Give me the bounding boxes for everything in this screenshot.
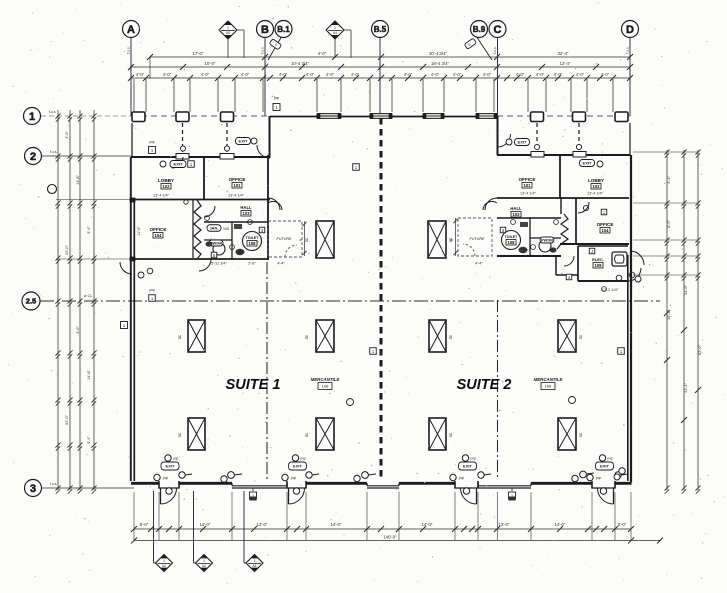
B.1 flag leader — [268, 38, 281, 61]
svg-text:ELEC.: ELEC. — [592, 257, 604, 262]
powder circle — [213, 243, 225, 255]
left block extra marks — [205, 216, 210, 221]
top dimension line 1 — [150, 56, 630, 58]
svg-text:18′-4 3/4″: 18′-4 3/4″ — [431, 61, 450, 66]
storefront door alcove — [158, 481, 160, 489]
canopy columns left — [132, 112, 145, 122]
svg-text:B: B — [261, 24, 269, 36]
future room dim edge right — [455, 218, 457, 256]
svg-text:4′-0″: 4′-0″ — [279, 72, 288, 77]
svg-text:4′-4″: 4′-4″ — [666, 176, 671, 184]
north wall jog at B — [269, 116, 271, 158]
demising wall B.5 dashed — [380, 118, 383, 480]
right block toilet partition — [529, 218, 531, 256]
svg-text:PWDR: PWDR — [541, 238, 553, 243]
svg-text:HALL: HALL — [510, 206, 522, 211]
bottom dimension line 2 — [134, 540, 660, 542]
door leaf and swing — [160, 488, 162, 504]
window tag diamond 1 — [156, 555, 173, 572]
svg-text:9′-4″: 9′-4″ — [87, 226, 91, 234]
svg-text:D: D — [626, 24, 634, 36]
svg-text:pop: pop — [608, 457, 614, 461]
right block office walls — [575, 198, 577, 244]
svg-text:sc: sc — [578, 335, 583, 339]
canopy east edge — [629, 123, 631, 155]
storefront recess labels right — [572, 475, 578, 481]
svg-text:1: 1 — [334, 26, 336, 30]
elec small box — [589, 248, 595, 254]
svg-text:14′-0″: 14′-0″ — [422, 522, 433, 527]
svg-text:14′-0″: 14′-0″ — [200, 522, 211, 527]
svg-text:4′-0″: 4′-0″ — [241, 72, 250, 77]
svg-text:62′-0″: 62′-0″ — [65, 415, 69, 425]
svg-text:A4: A4 — [226, 31, 230, 35]
column xbrace row2 d — [558, 418, 576, 450]
svg-text:EXIT: EXIT — [463, 464, 472, 469]
svg-text:14′-8″: 14′-8″ — [87, 370, 91, 380]
svg-text:2′-8″: 2′-8″ — [248, 262, 256, 266]
svg-text:12′-4″: 12′-4″ — [560, 61, 571, 66]
svg-text:30′-4 3/4″: 30′-4 3/4″ — [429, 51, 448, 56]
svg-text:10′-4 3/4″: 10′-4 3/4″ — [291, 61, 310, 66]
svg-text:103: 103 — [513, 212, 521, 217]
window tag diamond 3 — [246, 555, 263, 572]
svg-text:f.o.s.: f.o.s. — [261, 46, 265, 53]
right block plumbing wall zigzag — [557, 214, 568, 249]
svg-text:14′-0″: 14′-0″ — [555, 522, 566, 527]
left block wall h y199 — [133, 199, 270, 201]
top dimension ticks — [128, 75, 134, 81]
svg-text:SUITE 1: SUITE 1 — [226, 377, 281, 393]
top extension lines — [133, 79, 135, 112]
future room dim edge — [304, 221, 306, 256]
canopy column drop lines right — [536, 123, 538, 151]
protrusion door arc — [564, 256, 574, 266]
grid bubble D — [622, 21, 639, 38]
door labels — [463, 488, 469, 494]
svg-text:104: 104 — [155, 233, 163, 238]
south wall high segments — [131, 482, 159, 485]
left exit door west wall — [120, 262, 132, 274]
svg-text:1: 1 — [203, 559, 205, 563]
svg-text:sc: sc — [304, 335, 309, 339]
left block wall v x268 — [267, 155, 269, 260]
elec fixture — [612, 252, 627, 266]
left block wall h y259 — [133, 258, 268, 260]
storefront recess labels left — [221, 476, 227, 482]
svg-text:4′-0″: 4′-0″ — [536, 72, 545, 77]
svg-text:8′-0″: 8′-0″ — [666, 220, 671, 228]
column xbrace upper-left future — [316, 221, 334, 258]
storefront recess labels center — [354, 475, 360, 481]
svg-text:EXIT: EXIT — [600, 464, 609, 469]
future room right dashed — [458, 218, 492, 256]
svg-text:1: 1 — [163, 559, 165, 563]
interior wall extension stubs to left margin — [56, 199, 131, 201]
storefront door alcove — [591, 481, 593, 489]
svg-text:101: 101 — [234, 183, 242, 188]
svg-text:LOBBY: LOBBY — [588, 178, 604, 183]
door leaf and swing — [476, 488, 478, 504]
keynote diamond top 2 — [326, 21, 344, 39]
svg-text:1: 1 — [29, 111, 35, 123]
svg-text:EXIT: EXIT — [239, 139, 248, 144]
svg-text:EXIT: EXIT — [583, 161, 592, 166]
svg-text:14′-0″: 14′-0″ — [331, 522, 342, 527]
svg-text:108: 108 — [508, 240, 516, 245]
left block plumbing wall zigzag — [194, 200, 201, 259]
svg-text:f.o.s.: f.o.s. — [493, 46, 497, 53]
svg-text:FUTURE: FUTURE — [470, 237, 485, 241]
north wall jog at C — [497, 116, 499, 155]
svg-text:pop: pop — [163, 476, 169, 480]
svg-text:B.1: B.1 — [277, 25, 290, 34]
svg-text:4′-0″: 4′-0″ — [326, 72, 335, 77]
svg-text:A: A — [127, 24, 135, 36]
jan label — [207, 225, 221, 232]
svg-text:4′-0″: 4′-0″ — [453, 72, 462, 77]
svg-text:14′-8″: 14′-8″ — [683, 284, 688, 295]
wall pilasters west — [130, 198, 135, 202]
window frames center bay — [317, 114, 341, 119]
svg-text:6′-0″: 6′-0″ — [618, 522, 627, 527]
svg-text:OFFICE: OFFICE — [150, 227, 167, 232]
top dimension line 2 — [131, 66, 630, 68]
right block extra marks — [554, 220, 559, 225]
svg-text:102: 102 — [593, 184, 601, 189]
svg-text:4′-0″: 4′-0″ — [163, 72, 172, 77]
svg-text:1: 1 — [254, 559, 256, 563]
grid leader lines below bubbles — [130, 38, 132, 117]
column xbrace row1 c — [429, 320, 446, 352]
svg-text:4′-0″: 4′-0″ — [201, 72, 210, 77]
grid line row2 — [42, 155, 131, 157]
door leaf and swing — [613, 488, 615, 504]
svg-text:f.o.s.: f.o.s. — [626, 46, 630, 53]
column xbrace upper-right future — [428, 221, 446, 258]
svg-text:6′-0″: 6′-0″ — [140, 522, 149, 527]
column xbrace row2 b — [316, 418, 334, 450]
svg-text:sc: sc — [448, 433, 453, 437]
grid bubble 2.5 — [22, 292, 40, 310]
svg-text:EXIT: EXIT — [174, 162, 183, 167]
svg-text:J: J — [591, 249, 593, 254]
svg-text:1: 1 — [227, 26, 229, 30]
left block wall v x204 — [203, 157, 205, 199]
svg-text:4′-0″: 4′-0″ — [483, 72, 492, 77]
svg-text:C: C — [494, 24, 502, 36]
svg-text:4′-0″: 4′-0″ — [65, 131, 69, 139]
svg-text:2: 2 — [30, 151, 36, 163]
svg-text:sc: sc — [177, 433, 182, 437]
svg-text:106: 106 — [322, 384, 329, 389]
svg-text:2.5: 2.5 — [26, 297, 36, 306]
canopy west edge — [131, 123, 133, 157]
right block wall v x560 — [559, 155, 561, 198]
top dimension line 3 — [131, 77, 630, 79]
svg-text:9′: 9′ — [299, 238, 303, 241]
grid line row3 — [42, 487, 134, 489]
svg-text:4′-0″: 4′-0″ — [554, 72, 563, 77]
svg-text:13′-4 1/4″: 13′-4 1/4″ — [228, 194, 245, 198]
svg-text:4′-0″: 4′-0″ — [306, 72, 315, 77]
left block door arcs — [257, 145, 270, 158]
svg-text:f.o.s.: f.o.s. — [50, 150, 57, 154]
svg-text:5′-11 3/4″: 5′-11 3/4″ — [211, 262, 227, 266]
elec room walls — [577, 246, 579, 281]
svg-text:102: 102 — [163, 184, 171, 189]
left block labels row — [160, 161, 166, 167]
svg-text:13′-4 1/4″: 13′-4 1/4″ — [587, 192, 604, 196]
toilet fixtures right — [519, 247, 528, 253]
svg-text:f.o.s.: f.o.s. — [49, 110, 56, 114]
svg-text:4′-4″: 4′-4″ — [277, 262, 285, 266]
office door arc — [578, 202, 589, 213]
svg-text:103: 103 — [243, 211, 251, 216]
toilet fixtures left — [236, 249, 245, 255]
left block wall h y222 — [204, 221, 268, 223]
svg-text:105: 105 — [223, 227, 229, 231]
svg-text:SUITE 2: SUITE 2 — [457, 377, 512, 393]
svg-text:TOILET: TOILET — [246, 236, 260, 240]
grid bubble B.1 — [275, 21, 292, 38]
svg-text:109: 109 — [595, 263, 603, 268]
svg-text:62′-0″: 62′-0″ — [697, 344, 702, 355]
svg-text:101: 101 — [524, 183, 532, 188]
grid bubble C — [489, 21, 506, 38]
svg-text:4′-0″: 4′-0″ — [76, 326, 80, 334]
bottom extension lines — [133, 492, 135, 540]
svg-text:A4: A4 — [253, 564, 257, 568]
grid line B interior dash-dot — [266, 262, 268, 480]
bottom dimension line 1 — [134, 528, 631, 530]
future door arc right dashed — [463, 244, 475, 256]
svg-text:14′-8″: 14′-8″ — [76, 175, 80, 185]
svg-text:106: 106 — [545, 384, 552, 389]
svg-text:MERCANTILE: MERCANTILE — [311, 377, 341, 382]
svg-text:pop: pop — [173, 457, 179, 461]
north wall center bay — [270, 116, 497, 118]
stray circle left margin — [48, 185, 57, 194]
north wall right office block — [497, 154, 630, 156]
pop box center wall — [273, 104, 280, 111]
svg-text:A4: A4 — [162, 564, 166, 568]
svg-text:4′-0″: 4′-0″ — [404, 72, 413, 77]
svg-text:⌀ CL: ⌀ CL — [84, 293, 93, 298]
column tick labels above left wall — [180, 146, 185, 151]
svg-text:sc: sc — [448, 335, 453, 339]
door labels — [600, 488, 606, 494]
future room left dashed — [268, 221, 302, 257]
svg-text:pop: pop — [459, 476, 465, 480]
svg-text:JAN.: JAN. — [209, 226, 218, 231]
svg-text:18′-4″: 18′-4″ — [666, 309, 671, 320]
svg-text:sc: sc — [448, 238, 453, 242]
svg-text:108: 108 — [249, 241, 257, 246]
storefront door alcove — [286, 481, 288, 489]
svg-text:MERCANTILE: MERCANTILE — [534, 377, 564, 382]
svg-text:pop: pop — [471, 457, 477, 461]
svg-text:OFFICE: OFFICE — [519, 177, 536, 182]
svg-text:sc: sc — [177, 335, 182, 339]
svg-text:4′-4″: 4′-4″ — [475, 262, 483, 266]
storefront door alcove — [454, 481, 456, 489]
svg-text:B.9: B.9 — [473, 25, 486, 34]
svg-text:EXIT: EXIT — [518, 140, 527, 145]
future door arc dashed — [285, 245, 297, 257]
svg-text:pop: pop — [596, 476, 602, 480]
svg-text:13′-4 1/4″: 13′-4 1/4″ — [520, 192, 537, 196]
centerline row 2.5 — [40, 300, 660, 302]
powder circle right — [539, 240, 551, 252]
B.9 flag leader — [477, 38, 492, 61]
right margin connector stubs — [633, 151, 698, 153]
stray circles field — [347, 399, 354, 406]
svg-text:9′-4″: 9′-4″ — [87, 436, 91, 444]
door leaf and swing — [288, 488, 290, 504]
svg-text:4′-0″: 4′-0″ — [576, 72, 585, 77]
svg-text:17′-0″: 17′-0″ — [193, 51, 204, 56]
right margin ticks — [664, 149, 669, 154]
column xbrace row2 c — [429, 418, 446, 450]
svg-text:sc: sc — [304, 238, 309, 242]
svg-text:EXIT: EXIT — [293, 464, 302, 469]
grid bubble 1 — [24, 108, 41, 125]
right block labels row — [506, 139, 512, 145]
wall boxes field — [121, 322, 128, 329]
svg-text:FUTURE: FUTURE — [277, 237, 292, 241]
powder label — [209, 240, 223, 246]
svg-text:32′-4″: 32′-4″ — [558, 51, 569, 56]
grid bubble B.5 — [372, 21, 389, 38]
svg-text:TOILET: TOILET — [505, 235, 519, 239]
svg-text:OFFICE: OFFICE — [229, 177, 246, 182]
door labels — [293, 488, 299, 494]
right block wall h y218 — [497, 217, 561, 219]
svg-text:B.5: B.5 — [374, 25, 387, 34]
svg-text:4′-0″: 4′-0″ — [318, 51, 327, 56]
column tick labels above right wall — [534, 144, 539, 149]
svg-text:104: 104 — [602, 228, 610, 233]
svg-text:A4: A4 — [333, 31, 337, 35]
grid bubble B.9 — [471, 21, 488, 38]
canopy dashed line left bay — [131, 115, 270, 117]
svg-text:LOBBY: LOBBY — [158, 178, 174, 183]
toilet circle right — [502, 231, 521, 250]
toilet circle big — [243, 232, 262, 251]
grid bubble 2 — [25, 148, 42, 165]
left block toilet partition — [231, 222, 233, 259]
svg-text:HALL: HALL — [240, 205, 252, 210]
canopy columns right — [531, 112, 544, 122]
grid bubble A — [123, 21, 140, 38]
right margin dimension lines — [666, 150, 668, 490]
elec door arc east — [628, 268, 641, 281]
window tag diamond 2 — [196, 555, 213, 572]
right block wall h y256 — [497, 255, 561, 257]
svg-text:pop: pop — [291, 476, 297, 480]
svg-text:EXIT: EXIT — [166, 464, 175, 469]
svg-text:pop: pop — [149, 288, 155, 292]
svg-text:f.o.s.: f.o.s. — [50, 482, 57, 486]
bottom dimension ticks 1 — [131, 526, 137, 532]
svg-text:44′-4″: 44′-4″ — [683, 382, 688, 393]
svg-text:4′-0″: 4′-0″ — [516, 72, 525, 77]
keynote diamond top 1 — [219, 21, 237, 39]
SE corner labels — [619, 468, 625, 474]
west exterior wall — [130, 157, 132, 481]
canopy column drop lines left — [182, 123, 184, 152]
pop box west wall — [149, 295, 156, 302]
left margin dimension lines — [57, 110, 59, 490]
svg-text:f.o.s.: f.o.s. — [127, 46, 131, 53]
svg-text:4′-0″: 4′-0″ — [431, 72, 440, 77]
grid line C interior dash-dot — [497, 300, 499, 480]
grid bubble B — [257, 21, 274, 38]
east exterior wall — [630, 155, 632, 483]
svg-text:10′-0″: 10′-0″ — [205, 61, 216, 66]
small box right of B.1 — [353, 164, 360, 171]
column xbrace row2 a — [188, 418, 205, 450]
column xbrace row1 d — [558, 320, 576, 352]
svg-text:sc: sc — [304, 433, 309, 437]
svg-text:sc: sc — [578, 433, 583, 437]
svg-text:pop: pop — [301, 457, 307, 461]
left margin ticks — [55, 113, 60, 118]
lobby entry door arc — [172, 157, 183, 168]
column xbrace row1 b — [316, 320, 334, 352]
north wall left office block — [131, 156, 270, 158]
elec door arc outside — [630, 251, 644, 265]
svg-text:13′-4 1/4″: 13′-4 1/4″ — [153, 194, 170, 198]
column xbrace row1 a — [188, 320, 205, 352]
svg-text:140′-0″: 140′-0″ — [383, 535, 397, 540]
right block wall h y198 — [497, 197, 629, 199]
door labels — [166, 488, 172, 494]
svg-text:A4: A4 — [202, 564, 206, 568]
wall tag boxes below storefront — [250, 492, 257, 499]
grid bubble 3 — [25, 480, 42, 497]
svg-text:13′-0″: 13′-0″ — [499, 522, 510, 527]
right block door arcs — [498, 134, 511, 147]
south wall recessed segments — [231, 483, 233, 485]
grid line row1 dashed — [41, 115, 131, 117]
protrusion walls — [555, 256, 557, 275]
canopy dashed line right bay — [497, 115, 630, 117]
svg-text:13′-0″: 13′-0″ — [257, 522, 268, 527]
b corner labels — [251, 138, 257, 144]
svg-text:OFFICE: OFFICE — [597, 222, 614, 227]
svg-text:3: 3 — [30, 483, 36, 495]
svg-text:pop: pop — [149, 140, 155, 144]
svg-text:4′-0″: 4′-0″ — [136, 72, 145, 77]
window tag lines — [153, 491, 155, 563]
svg-text:11′-6″: 11′-6″ — [137, 226, 141, 236]
